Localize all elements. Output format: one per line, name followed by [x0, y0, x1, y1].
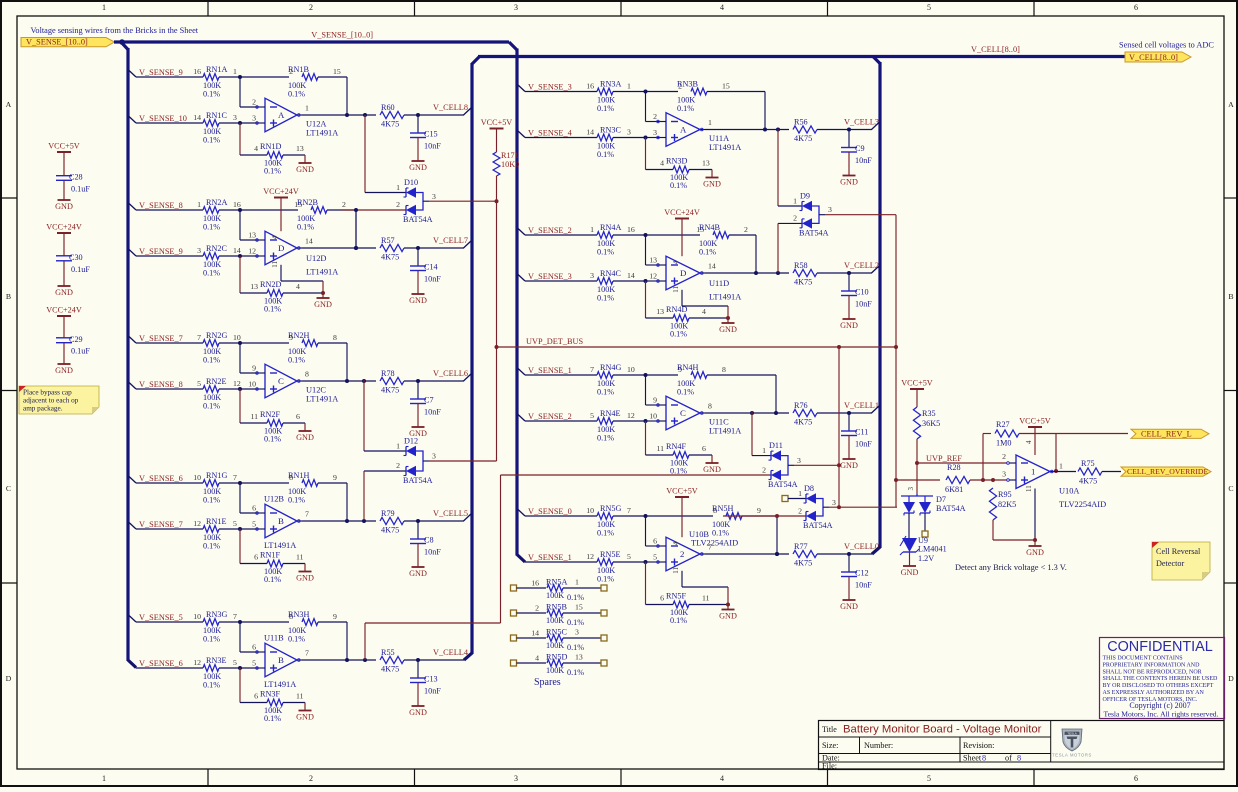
svg-text:RN5E: RN5E	[600, 550, 620, 559]
svg-text:A: A	[6, 100, 12, 109]
svg-text:10nF: 10nF	[855, 581, 872, 590]
svg-text:CONFIDENTIAL: CONFIDENTIAL	[1107, 639, 1213, 655]
wire	[404, 520, 464, 522]
wire	[404, 380, 464, 382]
svg-text:VCC+24V: VCC+24V	[263, 187, 299, 196]
svg-text:6: 6	[1134, 774, 1138, 783]
svg-text:V_CELL[8..0]: V_CELL[8..0]	[971, 45, 1020, 54]
svg-text:4: 4	[702, 307, 706, 316]
svg-text:10K0: 10K0	[501, 160, 519, 169]
resistor RN1C	[136, 111, 240, 145]
wire	[993, 520, 1035, 540]
svg-text:3: 3	[252, 113, 256, 122]
svg-text:6: 6	[252, 643, 256, 652]
svg-text:4K75: 4K75	[381, 120, 399, 129]
svg-text:3: 3	[233, 113, 237, 122]
node V_SENSE_7	[129, 334, 183, 343]
ground	[840, 436, 858, 471]
wire	[496, 176, 498, 461]
svg-text:5: 5	[590, 411, 594, 420]
svg-text:BAT54A: BAT54A	[803, 521, 833, 530]
junction	[847, 128, 851, 132]
svg-text:GND: GND	[719, 612, 737, 621]
svg-text:RN5D: RN5D	[546, 653, 567, 662]
svg-text:9: 9	[252, 364, 256, 373]
svg-text:10: 10	[193, 612, 201, 621]
ground	[719, 605, 737, 621]
ground	[296, 423, 314, 442]
svg-text:C13: C13	[424, 675, 438, 684]
svg-text:Title: Title	[822, 725, 837, 734]
junction	[238, 481, 242, 485]
resistor R35	[913, 407, 940, 439]
svg-text:amp package.: amp package.	[23, 405, 63, 413]
capacitor C13	[410, 660, 441, 696]
svg-text:GND: GND	[840, 178, 858, 187]
port V_SENSE_[10..0]	[21, 38, 115, 47]
node V_SENSE_9	[129, 247, 183, 256]
wire	[1019, 434, 1128, 472]
svg-text:9: 9	[757, 506, 761, 515]
svg-text:GND: GND	[296, 574, 314, 583]
svg-text:6K81: 6K81	[945, 485, 963, 494]
svg-text:2: 2	[309, 3, 313, 12]
power VCC+24V	[46, 306, 82, 338]
svg-text:1M0: 1M0	[996, 439, 1011, 448]
svg-text:0.1%: 0.1%	[203, 223, 220, 232]
svg-text:0.1%: 0.1%	[567, 668, 584, 677]
svg-text:RN4E: RN4E	[600, 409, 620, 418]
op-amp U12D	[248, 231, 338, 277]
svg-text:4: 4	[720, 774, 724, 783]
svg-text:5: 5	[653, 552, 657, 561]
wire	[646, 374, 679, 376]
svg-text:15: 15	[575, 603, 583, 612]
node V_SENSE_10	[129, 114, 187, 123]
junction	[915, 461, 919, 465]
resistor RN4A	[525, 223, 646, 257]
wire	[646, 375, 660, 421]
confidential notice	[1100, 638, 1225, 719]
svg-text:GND: GND	[409, 163, 427, 172]
capacitor C30	[56, 253, 90, 274]
resistor RN2E	[136, 377, 241, 411]
svg-text:RN4F: RN4F	[666, 442, 686, 451]
svg-text:4K75: 4K75	[794, 418, 812, 427]
svg-text:2: 2	[309, 774, 313, 783]
svg-text:SHALL THE CONTENTS HEREIN BE U: SHALL THE CONTENTS HEREIN BE USED	[1103, 676, 1218, 682]
svg-text:16: 16	[233, 200, 241, 209]
resistor RN4D	[656, 305, 728, 339]
node V_CELL2	[844, 261, 880, 273]
svg-text:D: D	[6, 674, 12, 683]
svg-text:10nF: 10nF	[855, 156, 872, 165]
svg-text:VCC+5V: VCC+5V	[666, 487, 698, 496]
svg-text:D9: D9	[800, 192, 810, 201]
svg-text:14: 14	[531, 628, 539, 637]
power VCC+5V	[1019, 417, 1051, 456]
svg-text:7: 7	[233, 612, 237, 621]
svg-text:16: 16	[586, 82, 594, 91]
svg-text:0.1%: 0.1%	[203, 356, 220, 365]
svg-text:1: 1	[396, 183, 400, 192]
svg-text:GND: GND	[840, 461, 858, 470]
svg-text:10nF: 10nF	[424, 408, 441, 417]
wire	[838, 347, 840, 465]
svg-text:3: 3	[627, 128, 631, 137]
svg-text:TLV2254AID: TLV2254AID	[1059, 500, 1106, 509]
svg-text:6: 6	[252, 504, 256, 513]
svg-text:0.1%: 0.1%	[670, 330, 687, 339]
svg-text:VCC+5V: VCC+5V	[1019, 417, 1051, 426]
svg-text:5: 5	[627, 552, 631, 561]
wire	[240, 483, 258, 529]
svg-text:13: 13	[296, 144, 304, 153]
svg-text:RN3D: RN3D	[666, 156, 687, 165]
wire	[342, 200, 406, 247]
wire	[240, 621, 289, 623]
svg-text:Place bypass cap: Place bypass cap	[23, 389, 72, 397]
svg-text:0.1%: 0.1%	[288, 496, 305, 505]
svg-text:0.1%: 0.1%	[597, 575, 614, 584]
svg-text:10: 10	[193, 473, 201, 482]
svg-text:RN2A: RN2A	[206, 198, 227, 207]
resistor RN5E	[525, 550, 646, 584]
resistor RN4E	[525, 409, 646, 443]
svg-text:13: 13	[656, 307, 664, 316]
svg-text:0.1%: 0.1%	[567, 643, 584, 652]
svg-text:RN5B: RN5B	[546, 603, 567, 612]
resistor RN5F	[660, 591, 728, 625]
svg-text:C30: C30	[69, 253, 83, 262]
svg-text:8: 8	[333, 333, 337, 342]
svg-text:5: 5	[927, 774, 931, 783]
capacitor C7	[410, 381, 441, 417]
svg-text:10: 10	[649, 411, 657, 420]
svg-text:7: 7	[627, 506, 631, 515]
svg-text:Size:: Size:	[822, 741, 838, 750]
svg-text:LT1491A: LT1491A	[306, 268, 338, 277]
svg-text:10: 10	[233, 333, 241, 342]
svg-text:9: 9	[333, 473, 337, 482]
svg-text:4K75: 4K75	[794, 278, 812, 287]
junction	[1054, 469, 1058, 473]
svg-text:C29: C29	[69, 335, 83, 344]
svg-text:5: 5	[252, 658, 256, 667]
svg-text:7: 7	[305, 649, 309, 658]
ground	[296, 703, 314, 722]
junction	[238, 75, 242, 79]
svg-text:6: 6	[254, 692, 258, 701]
svg-text:1: 1	[305, 104, 309, 113]
svg-text:6: 6	[254, 553, 258, 562]
svg-text:4: 4	[271, 235, 279, 239]
svg-text:Sensed cell voltages to ADC: Sensed cell voltages to ADC	[1119, 41, 1214, 50]
svg-text:6: 6	[1134, 3, 1138, 12]
diode D11	[768, 441, 801, 489]
svg-text:RN1D: RN1D	[260, 142, 281, 151]
svg-text:C28: C28	[69, 173, 83, 182]
svg-text:16: 16	[531, 578, 539, 587]
svg-text:0.1%: 0.1%	[264, 575, 281, 584]
svg-text:0.1%: 0.1%	[597, 529, 614, 538]
wire	[646, 562, 674, 605]
svg-text:0.1%: 0.1%	[264, 305, 281, 314]
wire	[672, 286, 728, 318]
svg-text:TESLA: TESLA	[1067, 731, 1077, 735]
node V_CELL6	[433, 369, 472, 381]
resistor RN4C	[525, 269, 646, 303]
svg-text:4K75: 4K75	[381, 386, 399, 395]
wire	[404, 659, 464, 661]
svg-text:0.1%: 0.1%	[597, 294, 614, 303]
svg-text:V_SENSE_3: V_SENSE_3	[528, 83, 572, 92]
resistor RN3B	[677, 79, 730, 113]
resistor RN1H	[288, 471, 337, 505]
svg-text:14: 14	[193, 113, 201, 122]
junction	[345, 113, 349, 117]
svg-text:1: 1	[590, 225, 594, 234]
bus V_SENSE left vertical	[121, 42, 136, 668]
svg-text:4K75: 4K75	[381, 665, 399, 674]
ground	[55, 343, 73, 375]
resistor RN3D	[660, 156, 712, 190]
svg-text:11: 11	[656, 444, 664, 453]
svg-text:V_CELL2: V_CELL2	[844, 261, 879, 270]
svg-text:11: 11	[702, 594, 710, 603]
svg-text:RN3F: RN3F	[260, 689, 280, 698]
ground	[719, 318, 737, 334]
op-amp U12C	[248, 364, 338, 404]
svg-text:R58: R58	[794, 261, 808, 270]
svg-text:0.1%: 0.1%	[670, 467, 687, 476]
svg-text:14: 14	[305, 237, 313, 246]
svg-text:82K5: 82K5	[998, 500, 1016, 509]
resistor RN1D	[254, 142, 305, 176]
svg-text:7: 7	[590, 365, 594, 374]
svg-text:100K: 100K	[546, 641, 564, 650]
svg-text:4K75: 4K75	[381, 526, 399, 535]
junction	[837, 345, 841, 349]
svg-text:0.1%: 0.1%	[677, 388, 694, 397]
svg-text:C: C	[278, 376, 284, 386]
svg-text:C: C	[680, 408, 686, 418]
svg-text:14: 14	[586, 128, 594, 137]
junction	[416, 246, 420, 250]
svg-text:3: 3	[653, 128, 657, 137]
svg-text:8: 8	[305, 370, 309, 379]
node V_CELL3	[844, 118, 880, 130]
svg-text:8: 8	[708, 402, 712, 411]
svg-text:BAT54A: BAT54A	[768, 480, 798, 489]
wire	[825, 214, 896, 216]
junction	[1033, 538, 1037, 542]
svg-text:C: C	[1228, 484, 1233, 493]
node V_SENSE_2	[518, 226, 572, 235]
svg-text:10: 10	[248, 379, 256, 388]
svg-text:0.1%: 0.1%	[597, 150, 614, 159]
svg-text:2: 2	[653, 112, 657, 121]
svg-text:0.1%: 0.1%	[597, 434, 614, 443]
svg-text:V_CELL[8..0]: V_CELL[8..0]	[1129, 53, 1178, 62]
net UVP_REF	[917, 454, 1007, 463]
ground	[840, 296, 858, 331]
svg-text:R76: R76	[794, 401, 808, 410]
svg-text:7: 7	[197, 333, 201, 342]
svg-text:10nF: 10nF	[424, 687, 441, 696]
power VCC+24V	[664, 208, 700, 264]
svg-text:0.1%: 0.1%	[264, 435, 281, 444]
junction	[894, 345, 898, 349]
svg-text:R79: R79	[381, 509, 395, 518]
svg-text:V_CELL4: V_CELL4	[433, 648, 469, 657]
wire	[970, 479, 1007, 481]
wire	[705, 235, 789, 273]
wire	[705, 516, 789, 554]
svg-text:3: 3	[828, 205, 832, 214]
junction	[644, 233, 648, 237]
svg-text:GND: GND	[1026, 548, 1044, 557]
svg-text:Tesla Motors, Inc. All rights: Tesla Motors, Inc. All rights reserved.	[1103, 710, 1218, 719]
resistor RN2B	[294, 198, 346, 232]
svg-text:V_SENSE_[10..0]: V_SENSE_[10..0]	[311, 31, 373, 40]
svg-text:0.1%: 0.1%	[670, 181, 687, 190]
svg-text:GND: GND	[409, 296, 427, 305]
svg-text:RN1E: RN1E	[206, 517, 226, 526]
resistor RN4B	[696, 223, 748, 257]
svg-text:LT1491A: LT1491A	[709, 293, 741, 302]
resistor RN3G	[136, 610, 240, 644]
svg-text:TLV2254AID: TLV2254AID	[691, 539, 738, 548]
resistor R79	[380, 509, 404, 534]
svg-text:RN5H: RN5H	[712, 504, 733, 513]
svg-text:13: 13	[250, 282, 258, 291]
svg-text:VCC+24V: VCC+24V	[46, 306, 82, 315]
resistor RN4G	[525, 363, 646, 397]
svg-text:V_CELL1: V_CELL1	[844, 401, 879, 410]
svg-text:U11B: U11B	[264, 634, 284, 643]
resistor RN5C	[511, 628, 608, 652]
svg-text:2: 2	[396, 200, 400, 209]
wire	[646, 281, 674, 318]
svg-text:0.1%: 0.1%	[597, 248, 614, 257]
wire	[817, 553, 872, 555]
svg-text:6: 6	[296, 412, 300, 421]
svg-text:0.1%: 0.1%	[203, 542, 220, 551]
svg-text:TESLA MOTORS: TESLA MOTORS	[1052, 753, 1092, 758]
svg-text:100K: 100K	[546, 616, 564, 625]
wire	[404, 114, 464, 116]
resistor RN5D	[511, 653, 608, 677]
svg-text:V_CELL0: V_CELL0	[844, 542, 879, 551]
svg-text:1.2V: 1.2V	[918, 554, 934, 563]
svg-text:11: 11	[296, 692, 304, 701]
svg-text:D12: D12	[404, 437, 418, 446]
wire	[1025, 485, 1035, 540]
bus V_CELL horizontal	[478, 55, 1126, 58]
node V_SENSE_9	[129, 68, 183, 77]
node V_SENSE_6	[129, 659, 183, 668]
ground	[296, 155, 314, 174]
svg-text:Revision:: Revision:	[963, 741, 994, 750]
svg-text:C15: C15	[424, 130, 438, 139]
node V_SENSE_2	[518, 412, 572, 421]
svg-text:4: 4	[672, 260, 680, 264]
svg-text:A: A	[278, 110, 285, 120]
svg-text:V_SENSE_10: V_SENSE_10	[139, 114, 187, 123]
note: bypass cap note	[19, 386, 99, 414]
svg-text:GND: GND	[409, 569, 427, 578]
voltage reference U9 LM4041	[900, 536, 947, 563]
junction	[345, 379, 349, 383]
note: cell reversal note	[1152, 542, 1210, 580]
node V_CELL0	[844, 542, 880, 554]
svg-text:0.1%: 0.1%	[288, 635, 305, 644]
diode D7	[901, 487, 966, 516]
svg-text:V_SENSE_7: V_SENSE_7	[139, 334, 183, 343]
svg-text:2: 2	[535, 603, 539, 612]
diode D10	[403, 178, 436, 224]
no-connect	[782, 489, 806, 502]
svg-text:10nF: 10nF	[424, 275, 441, 284]
svg-text:V_SENSE_2: V_SENSE_2	[528, 226, 572, 235]
node V_CELL4	[433, 648, 472, 660]
svg-text:4K75: 4K75	[1079, 477, 1097, 486]
svg-text:VCC+5V: VCC+5V	[481, 118, 513, 127]
svg-text:D8: D8	[804, 484, 814, 493]
node V_CELL5	[433, 509, 472, 521]
wire	[983, 434, 991, 481]
wire	[240, 76, 289, 78]
resistor R95	[989, 488, 1016, 520]
wire	[365, 475, 501, 660]
svg-text:GND: GND	[409, 708, 427, 717]
wire	[240, 77, 258, 123]
svg-text:16: 16	[193, 67, 201, 76]
svg-text:R27: R27	[996, 420, 1010, 429]
junction	[981, 478, 985, 482]
svg-text:4: 4	[672, 541, 680, 545]
svg-text:Number:: Number:	[864, 741, 893, 750]
svg-text:V_CELL7: V_CELL7	[433, 236, 468, 245]
ground	[840, 577, 858, 612]
svg-text:11: 11	[250, 412, 258, 421]
svg-text:V_SENSE_9: V_SENSE_9	[139, 247, 183, 256]
diode D9	[799, 192, 832, 238]
ground	[409, 138, 427, 173]
svg-text:RN3B: RN3B	[677, 79, 698, 88]
svg-text:R78: R78	[381, 369, 395, 378]
wire	[908, 513, 910, 538]
wire	[240, 668, 267, 703]
resistor RN5B	[511, 603, 608, 627]
junction	[754, 271, 758, 275]
svg-text:D10: D10	[404, 178, 418, 187]
svg-text:B: B	[278, 516, 284, 526]
junction	[354, 208, 358, 212]
svg-text:2: 2	[744, 225, 748, 234]
svg-text:2: 2	[798, 506, 802, 515]
svg-text:12: 12	[233, 379, 241, 388]
svg-text:13: 13	[575, 653, 583, 662]
resistor RN5A	[511, 578, 608, 602]
svg-text:RN2C: RN2C	[206, 244, 227, 253]
svg-text:U12C: U12C	[306, 386, 326, 395]
svg-text:0.1%: 0.1%	[203, 269, 220, 278]
svg-text:D: D	[278, 243, 284, 253]
wire	[778, 213, 802, 272]
wire	[429, 460, 497, 462]
